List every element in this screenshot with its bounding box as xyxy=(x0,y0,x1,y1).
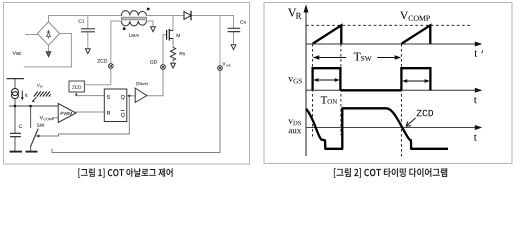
diode D1 xyxy=(184,11,191,20)
wire Vout feedback bottom loop xyxy=(52,70,220,152)
wire PWM output to latch R input xyxy=(76,111,104,113)
label M xyxy=(177,34,180,37)
wire driver output horizontal xyxy=(147,95,163,97)
pin Vout xyxy=(218,66,223,71)
pin ZCD xyxy=(108,64,113,69)
label C1 xyxy=(79,19,85,22)
wire ZCD block output to latch S input xyxy=(76,92,104,95)
wire Vcomp stub xyxy=(53,117,58,119)
label Ic xyxy=(25,93,28,96)
inductor core xyxy=(121,17,146,20)
pin GD xyxy=(161,65,166,70)
Ton arrow pulse 1 xyxy=(315,79,338,81)
label VR xyxy=(288,9,296,17)
dashed vertical at ton start xyxy=(312,44,314,137)
label Tsw xyxy=(354,53,361,61)
axis VR horizontal xyxy=(306,43,477,45)
Tsw arrow xyxy=(314,57,400,59)
label GD pin xyxy=(150,60,157,64)
label Driver xyxy=(137,82,149,85)
wire ramp rail at current source xyxy=(10,105,59,107)
ground bar below SW xyxy=(26,151,38,153)
label vGS xyxy=(288,77,293,82)
wire switch SW branch xyxy=(30,106,32,151)
wire Vac upper stub xyxy=(26,34,38,36)
vGS pulse 2 xyxy=(401,68,430,90)
label VR ramp xyxy=(37,84,40,87)
wire aux winding left to ZCD pin and ZCD block xyxy=(85,21,122,85)
junction dot current source xyxy=(14,105,17,108)
bridge return arrow xyxy=(46,52,51,57)
ground bar below C xyxy=(10,151,23,153)
latch Qbar overline xyxy=(121,109,125,111)
wire Vac lower loop xyxy=(24,34,71,67)
ground arrow below Rs xyxy=(171,63,176,68)
wire C1 branch xyxy=(87,16,89,49)
op-amp PWM comparator U3 xyxy=(58,104,76,123)
label vDS aux xyxy=(288,119,293,123)
MOSFET M xyxy=(167,29,173,41)
arrowhead SW control xyxy=(36,135,40,138)
ground arrow below Co xyxy=(231,45,236,50)
vGS low segment 1 xyxy=(340,89,401,91)
ramp icon pointer arrow xyxy=(34,97,37,100)
wire MOSFET source to Rs xyxy=(172,39,174,48)
bridge inner diode xyxy=(47,30,51,39)
caption figure 1 xyxy=(78,168,172,177)
label Rs xyxy=(180,52,185,55)
ground arrow below C1 xyxy=(85,49,90,54)
wire bridge top stub xyxy=(48,16,50,22)
current source Ic xyxy=(12,89,19,99)
aux winding Laux xyxy=(121,21,146,26)
capacitor Co xyxy=(228,28,241,31)
phase dot aux xyxy=(123,27,126,30)
wire Rs to ground arrow xyxy=(172,60,174,63)
phase dot primary xyxy=(147,8,150,11)
label Ton xyxy=(321,96,327,103)
junction dot Q feedback xyxy=(128,95,130,97)
caption figure 2 xyxy=(334,168,447,178)
dashed vertical at period end xyxy=(400,44,402,157)
wire capacitor C branch xyxy=(14,106,16,151)
vGS pulse 1 xyxy=(313,68,341,90)
wire Co branch xyxy=(233,16,235,45)
resistor Rs xyxy=(170,47,175,60)
latch U4 SR flip-flop xyxy=(104,89,127,122)
capacitor C1 xyxy=(81,29,95,32)
switch SW blade xyxy=(31,129,39,147)
capacitor C xyxy=(10,133,21,136)
label Laux xyxy=(129,33,139,36)
wire Vout tap upper xyxy=(219,16,221,66)
label Vcomp xyxy=(40,116,43,120)
wire top rail right (diode to output corner) xyxy=(192,15,234,17)
buffer Driver U5 xyxy=(135,88,147,102)
label C xyxy=(19,125,22,129)
wire latch Q output to driver input xyxy=(127,95,135,97)
label Vout xyxy=(222,62,225,65)
axis vDS horizontal xyxy=(306,127,477,129)
label ZCD pin xyxy=(97,59,107,63)
axis vertical xyxy=(305,7,307,156)
Ic arrow xyxy=(21,91,23,98)
panel 1 frame xyxy=(4,3,250,165)
junction dot switch branch xyxy=(29,105,32,108)
bridge rectifier BR1 xyxy=(37,22,59,46)
ZCD pointer arrow xyxy=(407,118,416,125)
label Vac xyxy=(13,51,22,55)
waveform vDS aux xyxy=(306,108,448,149)
Ton arrow pulse 2 xyxy=(404,80,428,82)
wire top rail left (bridge to inductor) xyxy=(49,15,122,17)
dashed line VCOMP level xyxy=(306,24,472,26)
dashed vertical at ton end xyxy=(340,44,342,135)
label Co xyxy=(240,20,246,23)
label ZCD xyxy=(417,110,433,117)
label SW xyxy=(37,123,44,126)
wire gate to GD pin to driver output xyxy=(163,35,167,96)
axis vGS horizontal xyxy=(306,89,477,91)
ramp 1 xyxy=(313,25,342,43)
ramp 2 xyxy=(402,25,431,43)
current source top bar xyxy=(7,78,24,80)
wire aux winding right stub xyxy=(147,21,154,27)
label VCOMP xyxy=(400,12,408,20)
arrowhead into ZCD block bottom xyxy=(75,93,78,96)
label t axis 2 xyxy=(474,97,477,103)
label t axis 1 xyxy=(474,50,477,56)
panel 2 frame xyxy=(264,3,512,164)
ground arrow aux winding xyxy=(151,27,156,32)
block ZCD detector U2 xyxy=(69,81,84,92)
wire top rail mid (inductor to diode) xyxy=(147,15,185,17)
wire bridge bottom stub xyxy=(48,45,50,52)
wire Q feedback down and left to switch SW xyxy=(39,96,129,136)
wire current source stubs xyxy=(14,79,16,106)
inductor L primary winding xyxy=(121,11,146,16)
label t axis 3 xyxy=(474,134,477,140)
wire MOSFET drain xyxy=(172,16,174,31)
ramp waveform icon xyxy=(34,91,51,96)
